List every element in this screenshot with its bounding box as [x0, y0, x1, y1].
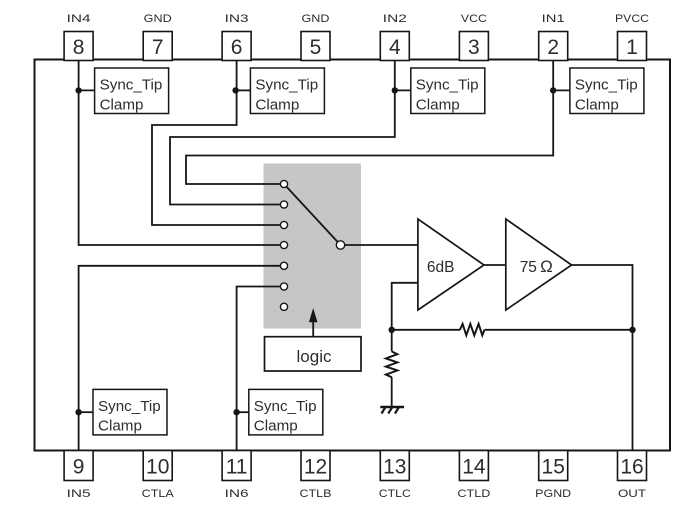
svg-text:5: 5 — [310, 36, 322, 59]
svg-text:Sync_Tip: Sync_Tip — [98, 398, 161, 415]
svg-text:6dB: 6dB — [427, 259, 455, 276]
svg-text:PVCC: PVCC — [615, 13, 649, 25]
svg-text:IN2: IN2 — [383, 13, 407, 25]
svg-text:CTLD: CTLD — [457, 488, 490, 500]
svg-text:IN3: IN3 — [225, 13, 249, 25]
svg-text:11: 11 — [226, 456, 248, 479]
svg-text:12: 12 — [304, 456, 327, 479]
svg-text:GND: GND — [144, 13, 172, 25]
svg-text:Sync_Tip: Sync_Tip — [254, 398, 317, 415]
svg-text:Clamp: Clamp — [416, 96, 460, 113]
svg-text:CTLC: CTLC — [379, 488, 411, 500]
svg-text:OUT: OUT — [618, 488, 646, 500]
svg-text:Clamp: Clamp — [254, 418, 298, 435]
svg-text:IN6: IN6 — [225, 488, 249, 500]
svg-text:IN5: IN5 — [67, 488, 91, 500]
svg-text:IN1: IN1 — [542, 13, 565, 25]
svg-text:Sync_Tip: Sync_Tip — [255, 77, 318, 94]
svg-text:Clamp: Clamp — [98, 418, 142, 435]
svg-text:3: 3 — [468, 36, 480, 59]
svg-text:Sync_Tip: Sync_Tip — [100, 77, 163, 94]
svg-text:Clamp: Clamp — [575, 96, 619, 113]
svg-text:PGND: PGND — [535, 488, 571, 500]
svg-text:GND: GND — [302, 13, 330, 25]
svg-text:IN4: IN4 — [67, 13, 91, 25]
svg-text:VCC: VCC — [461, 13, 487, 25]
svg-text:16: 16 — [620, 456, 643, 479]
svg-text:8: 8 — [73, 36, 85, 59]
svg-text:9: 9 — [73, 456, 85, 479]
svg-text:Sync_Tip: Sync_Tip — [416, 77, 479, 94]
svg-text:7: 7 — [152, 36, 164, 59]
svg-text:14: 14 — [462, 456, 486, 479]
svg-text:13: 13 — [383, 456, 406, 479]
svg-text:2: 2 — [547, 36, 559, 59]
svg-text:1: 1 — [626, 36, 638, 59]
svg-text:75Ω: 75Ω — [520, 257, 553, 276]
svg-text:CTLA: CTLA — [142, 488, 175, 500]
svg-text:10: 10 — [146, 456, 169, 479]
svg-text:logic: logic — [297, 347, 332, 366]
svg-text:4: 4 — [389, 36, 401, 59]
svg-text:Clamp: Clamp — [255, 96, 299, 113]
svg-text:Clamp: Clamp — [100, 96, 144, 113]
svg-text:Sync_Tip: Sync_Tip — [575, 77, 638, 94]
svg-text:15: 15 — [542, 456, 565, 479]
svg-text:6: 6 — [231, 36, 243, 59]
svg-text:CTLB: CTLB — [300, 488, 332, 500]
